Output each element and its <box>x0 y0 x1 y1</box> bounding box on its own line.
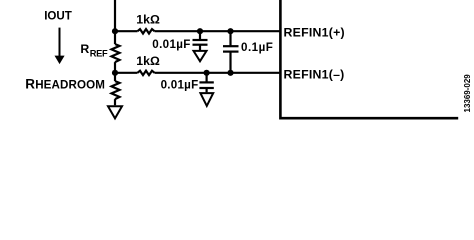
svg-text:13369-029: 13369-029 <box>463 74 472 113</box>
svg-text:IOUT: IOUT <box>44 9 72 22</box>
svg-text:R: R <box>25 76 35 91</box>
svg-text:0.01µF: 0.01µF <box>161 78 199 91</box>
svg-text:REFIN1(+): REFIN1(+) <box>284 26 345 40</box>
svg-text:REFIN1(–): REFIN1(–) <box>284 67 345 81</box>
svg-text:0.01µF: 0.01µF <box>152 38 190 51</box>
svg-text:0.1µF: 0.1µF <box>241 41 273 54</box>
svg-text:REF: REF <box>90 48 108 58</box>
svg-text:1kΩ: 1kΩ <box>136 13 160 27</box>
svg-text:R: R <box>80 42 89 56</box>
svg-text:HEADROOM: HEADROOM <box>35 78 105 91</box>
svg-text:1kΩ: 1kΩ <box>136 54 160 68</box>
